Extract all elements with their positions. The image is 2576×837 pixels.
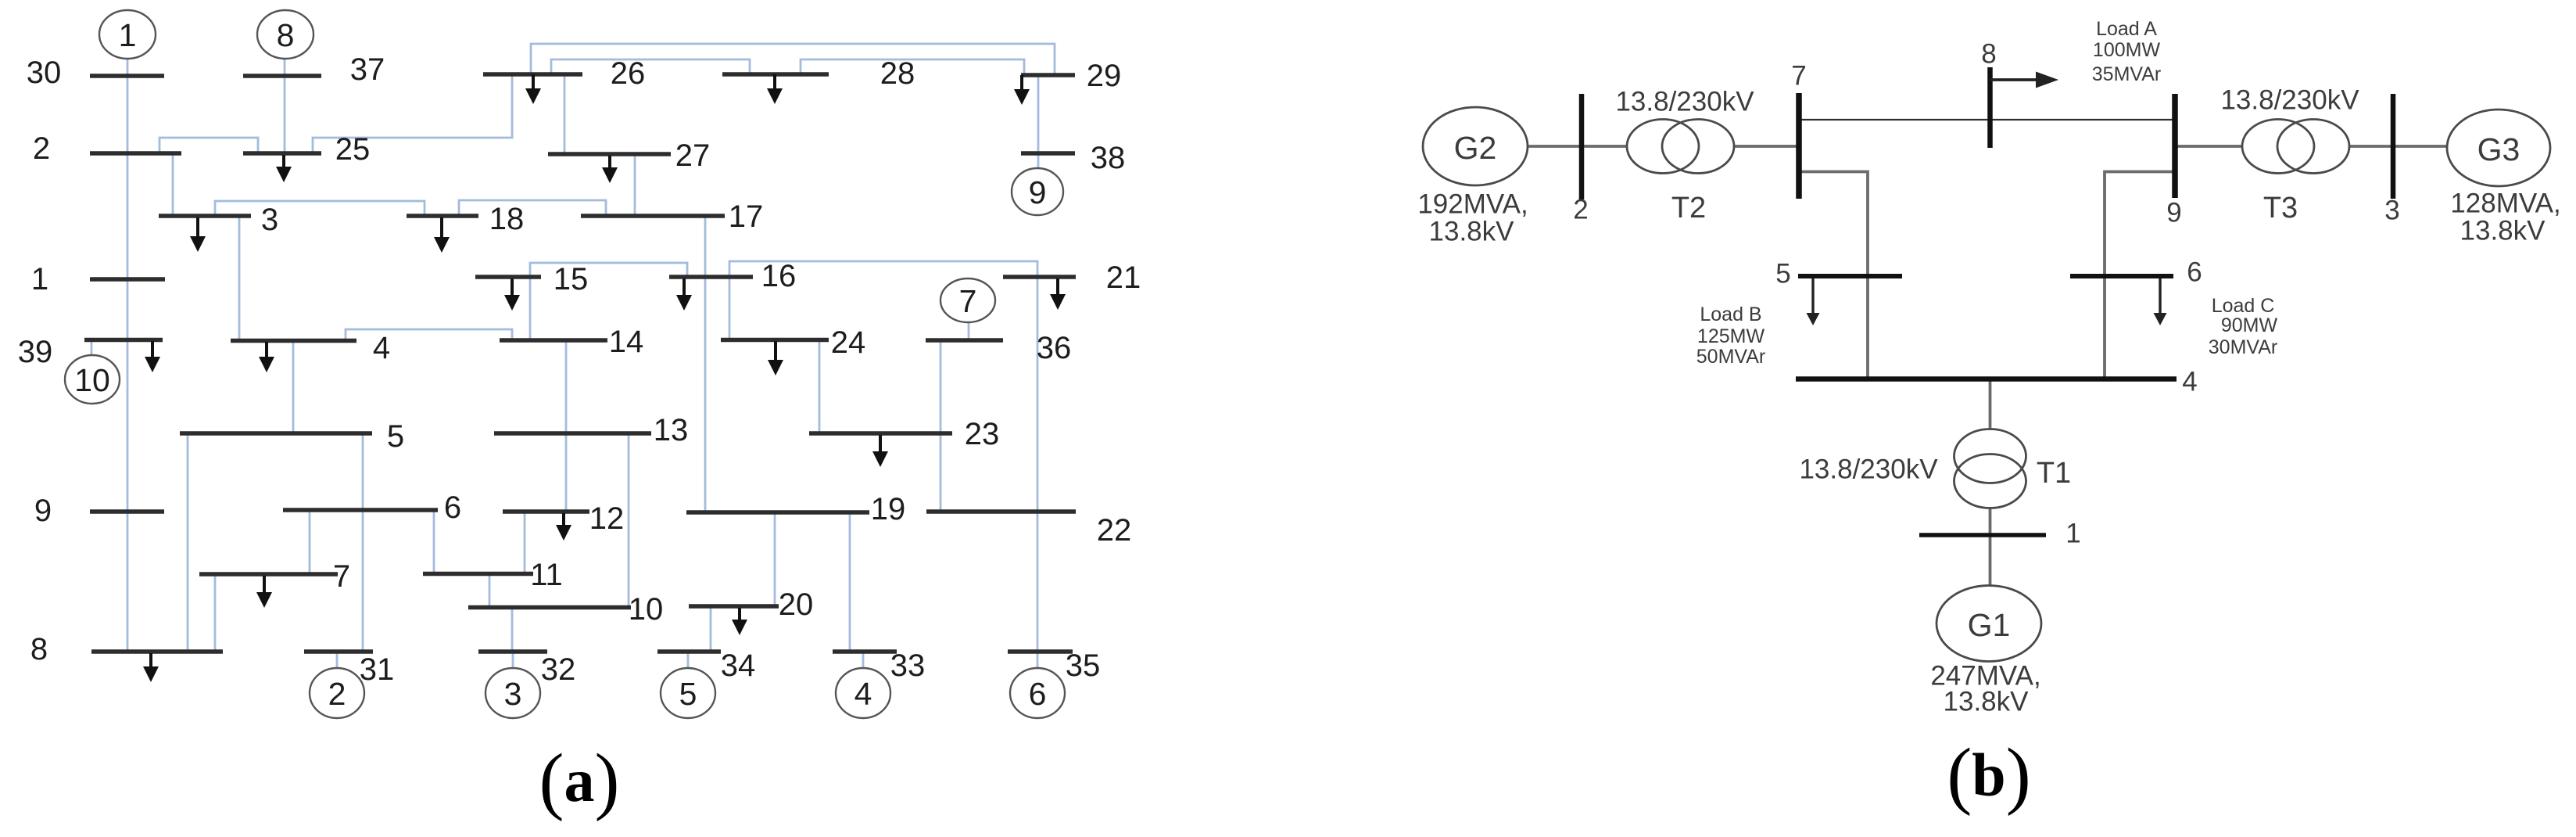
svg-text:192MVA,: 192MVA, [1417,189,1528,220]
svg-text:16: 16 [761,259,797,293]
svg-text:7: 7 [1791,61,1806,92]
wire line 16-21-22-35 [729,261,1037,652]
svg-text:125MW: 125MW [1697,325,1765,347]
svg-text:2: 2 [328,676,346,712]
svg-text:33: 33 [890,648,926,683]
svg-text:35: 35 [1066,648,1101,683]
bus 16 [669,275,753,279]
wire line 16-24 [729,277,731,339]
svg-text:30: 30 [27,56,62,90]
load arrow Load C [2154,278,2167,325]
svg-text:1: 1 [31,262,48,296]
load arrow bus 4 [259,342,274,372]
wire line 9-6-4 [2105,172,2175,380]
svg-text:1: 1 [119,17,137,53]
svg-text:8: 8 [1981,39,1996,70]
wire T1 to bus 1 [1989,508,1992,535]
svg-text:6: 6 [2187,257,2202,288]
svg-text:13.8/230kV: 13.8/230kV [1615,87,1754,117]
wire line 17-16-19 [704,216,707,512]
wire line 36-23-22 [940,340,942,512]
svg-text:14: 14 [609,325,644,359]
svg-text:(b): (b) [1947,733,2030,817]
bus 9 [90,509,164,514]
wire line 4-5 [292,340,295,433]
svg-text:13.8/230kV: 13.8/230kV [2220,85,2359,116]
bus 12 [503,509,589,514]
svg-text:20: 20 [779,587,814,622]
bus 23 [809,431,952,436]
svg-text:13.8kV: 13.8kV [1944,687,2030,717]
svg-text:4: 4 [2182,367,2197,397]
svg-text:24: 24 [831,325,866,360]
wire T2 to bus 7 [1734,145,1799,148]
bus 39 [84,338,163,343]
generator 3 [485,668,540,718]
load arrow bus 23 [872,435,888,467]
svg-text:6: 6 [444,490,461,525]
generator 8 [257,10,313,59]
bus 3 [2391,94,2396,199]
bus 6 [283,508,438,512]
transformer T1 [1954,429,2026,508]
bus 13 [494,431,651,436]
svg-text:27: 27 [675,138,711,173]
wire line 3-18 [215,201,425,216]
wire line 26-27 [564,74,566,154]
bus 14 [500,338,607,343]
bus 7 [1796,93,1802,199]
svg-text:128MVA,: 128MVA, [2450,189,2560,219]
svg-text:90MW: 90MW [2221,314,2278,336]
svg-text:13: 13 [654,413,689,447]
svg-text:17: 17 [729,199,764,234]
load arrow Load B [1807,278,1820,325]
svg-text:38: 38 [1091,141,1126,175]
svg-text:2: 2 [33,131,50,166]
wire line 2-25 [159,138,258,153]
svg-text:Load C: Load C [2212,295,2275,317]
bus 32 [478,649,547,654]
load arrow bus 27 [602,156,618,183]
svg-text:5: 5 [679,676,697,712]
bus 15 [475,275,541,279]
wire G2 to bus 2 [1526,145,1582,148]
svg-text:34: 34 [721,648,756,683]
generator 2 [310,668,364,718]
generator 4 [836,668,890,718]
svg-text:31: 31 [360,652,395,687]
bus 5 [180,431,372,436]
wire line 5-8 [187,433,189,652]
wire line 7-8 [214,574,217,652]
wire line 2-3 [172,153,174,216]
generator 7 [940,278,995,322]
svg-text:10: 10 [629,592,664,627]
svg-text:32: 32 [541,652,576,687]
svg-text:T1: T1 [2037,457,2071,490]
bus 38 [1021,151,1075,156]
generator G1 [1936,586,2041,662]
wire line 10-11 [489,573,491,607]
bus 3 [159,214,251,218]
bus 31 [304,649,373,654]
load arrow bus 15 [504,278,520,311]
wire line 29-38 [1037,75,1040,153]
wire link 31-gen2 [336,652,339,667]
svg-text:T2: T2 [1671,192,1706,225]
transformer T2 [1627,120,1734,174]
wire line 30-2-1-39-9-8 (gen 1 feeder) [127,59,129,652]
svg-text:4: 4 [373,331,390,365]
wire line 11-12 [524,512,526,573]
svg-text:22: 22 [1097,513,1132,548]
wire line 14-15-16 [530,263,687,340]
wire line 23-24 [819,339,821,433]
load arrow bus 26 [525,74,541,104]
bus 36 [926,338,1003,343]
bus 5 [1798,274,1902,278]
svg-text:11: 11 [530,558,563,592]
svg-text:30MVAr: 30MVAr [2209,336,2277,358]
wire bus 9 to T3 [2175,145,2242,148]
bus 27 [548,152,671,156]
load arrow bus 3 [190,217,206,252]
wire line 19-20 [774,512,776,606]
wire T3 to bus 3 [2348,145,2393,148]
svg-text:100MW: 100MW [2093,39,2161,61]
wire line 10-13 [628,433,630,607]
generator G3 [2447,110,2550,186]
svg-text:25: 25 [335,132,371,167]
svg-text:13.8kV: 13.8kV [1429,217,1515,247]
wire bus 1 to G1 [1989,535,1992,586]
bus 28 [722,72,829,77]
svg-text:Load B: Load B [1700,304,1761,325]
svg-text:5: 5 [1775,259,1790,289]
svg-text:28: 28 [880,56,915,91]
svg-text:37: 37 [350,52,385,87]
svg-text:50MVAr: 50MVAr [1696,346,1765,368]
bus 18 [407,214,478,218]
generator 5 [661,668,715,718]
svg-text:8: 8 [277,17,295,53]
wire line 37-25 (gen 8 feeder) [284,59,286,153]
svg-text:23: 23 [965,417,1000,451]
svg-text:21: 21 [1106,260,1141,295]
bus 2 [1579,94,1585,199]
svg-text:5: 5 [387,419,404,454]
wire line 28-29 [801,59,1024,75]
bus 10 [468,605,631,610]
bus 24 [721,338,829,343]
bus 29 [1021,73,1075,77]
bus 8 [91,649,223,654]
svg-text:4: 4 [854,676,872,712]
svg-text:39: 39 [18,335,53,369]
generator 10 [65,355,120,404]
load arrow bus 29 [1014,75,1030,105]
wire bus 4 to T1 [1989,379,1992,429]
load arrow bus 16 [676,278,692,311]
bus 35 [1008,649,1073,654]
wire line 17-27 [634,154,636,216]
generator 9 [1012,168,1063,215]
svg-text:2: 2 [1573,195,1588,225]
bus 25 [243,151,321,156]
svg-text:10: 10 [74,362,110,398]
load arrow bus 7 [256,576,272,608]
bus 26 [483,72,582,77]
svg-text:(a): (a) [539,738,620,822]
bus 37 [243,74,321,78]
wire line 26-29 [531,44,1055,75]
svg-text:9: 9 [34,494,52,528]
svg-text:G3: G3 [2477,131,2520,167]
transformer T3 [2242,120,2349,174]
bus 4 [231,339,356,343]
svg-text:1: 1 [2065,519,2080,549]
svg-text:12: 12 [589,501,625,536]
load arrow bus 25 [276,155,292,182]
wire link gen10-39 [91,340,93,355]
bus 19 [686,510,869,515]
bus 4 [1796,376,2177,382]
load arrow bus 18 [434,217,450,253]
bus 20 [689,604,779,609]
bus 17 [581,214,725,218]
load arrow bus 8 [143,653,159,682]
svg-text:13.8/230kV: 13.8/230kV [1799,454,1938,485]
svg-text:13.8kV: 13.8kV [2460,216,2546,246]
svg-text:9: 9 [2166,198,2181,228]
bus 21 [1003,275,1076,279]
svg-text:9: 9 [1029,174,1047,210]
wire line 6-7 [309,510,311,574]
load arrow bus 28 [767,74,783,104]
svg-text:7: 7 [959,283,977,319]
wire link 34-gen5 [687,652,690,667]
svg-text:T3: T3 [2263,192,2298,225]
wire line 4-14 [346,329,512,340]
svg-text:19: 19 [871,492,906,526]
bus 22 [926,509,1076,514]
load arrow bus 20 [732,608,747,635]
svg-text:6: 6 [1029,676,1047,712]
wire link 35-gen6 [1037,652,1039,667]
svg-text:29: 29 [1087,59,1122,93]
svg-text:18: 18 [489,202,525,236]
svg-text:G2: G2 [1454,130,1497,166]
wire line 25-26 [313,74,512,153]
bus 34 [657,649,721,654]
bus 8 [1987,67,1993,148]
wire line 19-33 [849,512,851,652]
wire line 14-13-12 [565,340,568,512]
svg-text:26: 26 [611,56,646,91]
bus 33 [833,649,897,654]
bus 30 [90,74,164,78]
bus 9 [2172,94,2178,198]
wire link 33-gen4 [862,652,865,667]
wire line 7-5-4 [1799,172,1868,380]
svg-text:15: 15 [554,262,589,296]
svg-text:36: 36 [1037,331,1072,365]
bus 6 [2070,274,2173,278]
load arrow bus 39 [145,341,160,372]
svg-text:3: 3 [2384,196,2399,226]
svg-text:35MVAr: 35MVAr [2092,63,2161,85]
svg-text:3: 3 [504,676,522,712]
bus 1 [1919,533,2046,537]
wire line 3-4 [238,216,241,340]
load arrow bus 24 [768,341,783,375]
svg-text:8: 8 [30,632,48,666]
bus 11 [423,572,533,577]
generator G2 [1423,107,1528,185]
generator 6 [1010,668,1065,718]
svg-text:7: 7 [333,559,350,594]
svg-text:G1: G1 [1968,607,2011,643]
wire line 10-32 [511,607,514,652]
wire line 7-8-9 (top) [1799,119,2175,120]
wire line 17-18 [459,200,606,216]
bus 2 [90,151,181,156]
wire line 5-6-31 [362,433,364,652]
bus 1 [90,277,165,282]
wire bus 2 to T2 [1582,145,1628,148]
wire line 38-gen9 [1037,153,1040,169]
wire link 32-gen3 [512,652,514,667]
bus 7 [199,572,338,577]
svg-text:Load A: Load A [2096,18,2157,40]
wire link gen7-36 [968,322,970,340]
svg-text:3: 3 [261,203,278,237]
wire line 6-11 [433,510,435,573]
wire bus 3 to G3 [2393,145,2449,148]
load arrow bus 21 [1050,278,1066,310]
load arrow bus 12 [556,513,571,541]
load arrow Load A (right) [1990,72,2059,88]
generator 1 [99,10,156,59]
wire line 26-28 [551,59,750,74]
wire line 20-34 [710,606,712,652]
